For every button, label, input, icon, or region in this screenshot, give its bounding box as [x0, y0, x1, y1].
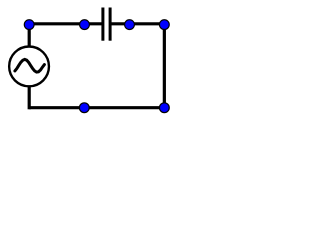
- capacitor C1 left plate: [101, 8, 104, 41]
- ac source V1 circle: [9, 47, 49, 87]
- node B (top wire, left of capacitor): [80, 20, 90, 30]
- wire: bottom-left vertical (corner up to source bottom): [28, 87, 31, 109]
- capacitor C1 right plate: [109, 8, 112, 41]
- node C (top wire, right of capacitor): [125, 20, 135, 30]
- wire: right vertical (top-right corner down to bottom-right corner): [163, 24, 166, 108]
- ac source V1 sine wave: [15, 59, 45, 72]
- node E (bottom wire middle): [79, 103, 89, 113]
- node A (top-left junction): [24, 20, 34, 30]
- wire: top horizontal left segment (node A to capacitor left plate): [29, 22, 103, 25]
- node D (top-right corner): [159, 20, 169, 30]
- wire: top horizontal right segment (capacitor right plate to top-right corner): [110, 22, 164, 25]
- node F (bottom-right corner): [159, 103, 169, 113]
- wire: bottom horizontal (bottom-right corner to bottom-left corner): [29, 106, 164, 109]
- wire: top-left vertical from node A down to source top: [28, 24, 31, 46]
